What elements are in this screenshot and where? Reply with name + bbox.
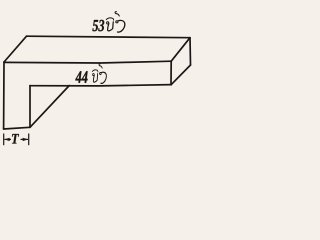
- beam back right vertical edge: [189, 38, 192, 65]
- beam top face left edge: [4, 36, 27, 62]
- label T (Liberation Serif Bold Italic outline): [12, 134, 19, 143]
- beam top face right edge: [171, 38, 190, 62]
- dimension T marker: [4, 134, 29, 146]
- letter no nu loop: [107, 22, 109, 24]
- right arrowhead: [23, 138, 29, 141]
- leg bottom edge: [4, 127, 30, 129]
- leg left vertical edge: [3, 62, 5, 129]
- vowel sara i above: [106, 18, 113, 20]
- paper background: [0, 0, 200, 151]
- letter wo waen body: [118, 20, 125, 32]
- right dim line: [21, 138, 29, 140]
- label 44 (Liberation Serif Bold Italic outlines): [75, 71, 87, 83]
- thai word "niw" (inch) for the 53 label: [106, 12, 125, 32]
- right extension tick: [28, 134, 30, 146]
- beam front top edge: [4, 61, 171, 63]
- letter no nu body: [108, 22, 114, 31]
- letter wo waen loop: [116, 21, 118, 23]
- leg side diagonal edge: [30, 86, 69, 128]
- left extension tick: [3, 134, 5, 146]
- beam front right vertical edge: [170, 61, 172, 85]
- tone mark mai tho: [115, 12, 119, 16]
- label 53 (Liberation Serif Bold Italic outlines): [92, 20, 104, 31]
- thai word "niw" (inch) for the 44 label: [92, 64, 106, 83]
- beam front bottom edge: [30, 85, 171, 86]
- leg inner vertical edge: [29, 86, 31, 128]
- left arrowhead: [4, 138, 10, 141]
- left dim line: [5, 138, 12, 140]
- beam top back edge: [27, 36, 191, 38]
- beam right end bottom edge: [171, 65, 191, 85]
